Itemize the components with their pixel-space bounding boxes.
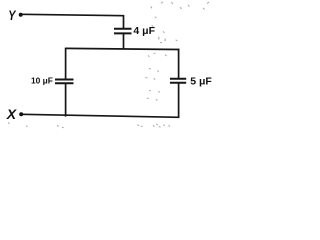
svg-text:10 μF: 10 μF [31,75,53,85]
capacitor C2 10uF bottom plate [55,82,74,84]
node Y terminal dot [19,13,23,17]
wire right rail upper [178,49,180,79]
capacitor C3 5uF bottom plate [170,82,186,84]
wire top rail [66,48,180,49]
svg-text:4 μF: 4 μF [133,25,155,37]
capacitor C2 10uF top plate [55,79,74,81]
capacitor C1 4uF bottom plate [114,32,132,34]
svg-text:5 μF: 5 μF [190,75,212,87]
capacitor C1 4uF top plate [114,28,132,30]
wire bottom rail from X to right rail [22,114,180,117]
wire left rail lower [65,83,67,116]
wire from 4uF down to top rail [123,33,125,49]
wire left rail upper [65,48,67,80]
capacitor C3 5uF top plate [170,78,186,80]
scan noise speckles (decorative) [8,2,209,128]
node X terminal dot [19,112,23,116]
svg-text:X: X [6,106,18,122]
wire right rail lower [178,83,180,118]
wire from Y to 4uF capacitor [22,14,124,28]
svg-text:Y: Y [8,7,16,23]
